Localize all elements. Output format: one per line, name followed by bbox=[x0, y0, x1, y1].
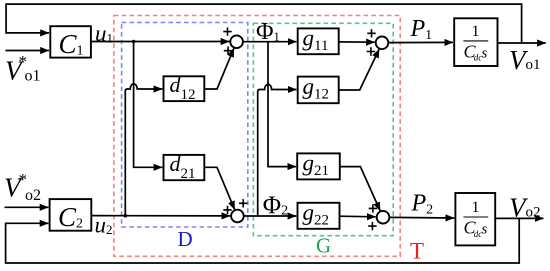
svg-text:G: G bbox=[316, 234, 331, 258]
svg-text:s: s bbox=[482, 222, 488, 238]
svg-text:T: T bbox=[410, 238, 424, 263]
svg-text:D: D bbox=[178, 227, 193, 251]
svg-text:1: 1 bbox=[472, 23, 480, 40]
svg-text:o1: o1 bbox=[25, 68, 41, 85]
svg-text:s: s bbox=[482, 46, 488, 62]
svg-text:1: 1 bbox=[472, 199, 480, 216]
svg-text:o2: o2 bbox=[25, 187, 41, 204]
